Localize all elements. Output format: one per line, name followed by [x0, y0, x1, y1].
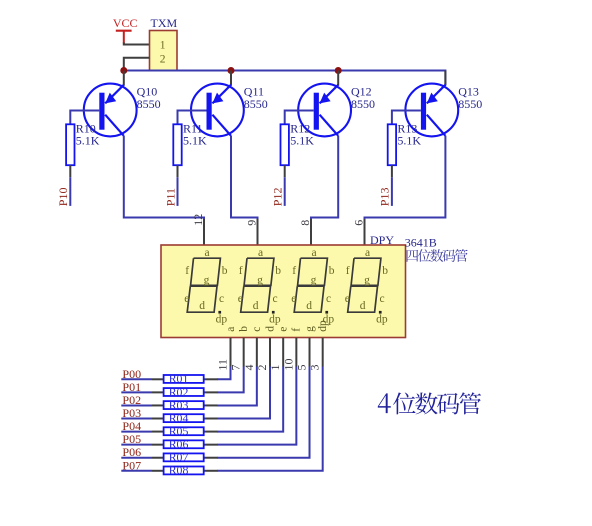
wire P07 to R08 — [121, 470, 152, 472]
transistor Q13 8550 PNP — [405, 84, 482, 137]
svg-text:g: g — [304, 326, 316, 332]
svg-text:8550: 8550 — [244, 97, 268, 111]
wire base Q12 to R12 — [285, 111, 314, 125]
resistor R12 5.1K — [281, 121, 315, 165]
power symbol VCC — [113, 16, 138, 43]
wire net stub P11 — [177, 165, 179, 177]
svg-text:P11: P11 — [163, 188, 177, 206]
wire VCC to TXM pin 1 — [124, 43, 150, 45]
svg-text:8550: 8550 — [458, 97, 482, 111]
svg-text:d: d — [199, 300, 205, 312]
svg-text:b: b — [382, 265, 388, 277]
svg-text:7: 7 — [229, 365, 243, 371]
connector TXM — [150, 16, 178, 70]
wire P01 to R02 — [121, 391, 152, 393]
svg-text:c: c — [219, 293, 224, 305]
svg-text:R05: R05 — [169, 424, 189, 438]
svg-text:5.1K: 5.1K — [76, 134, 100, 148]
svg-text:c: c — [273, 293, 278, 305]
resistor R11 5.1K — [173, 121, 207, 165]
svg-text:b: b — [329, 265, 335, 277]
svg-text:g: g — [311, 275, 317, 287]
resistor R13 5.1K — [388, 121, 422, 165]
title text: 4 wei shu ma guan — [378, 392, 481, 414]
wire emitter stub Q11 — [230, 71, 232, 86]
svg-text:5.1K: 5.1K — [397, 134, 421, 148]
pin stub DPY top pin 2 — [310, 219, 312, 245]
svg-text:P13: P13 — [378, 188, 392, 207]
svg-text:d: d — [264, 326, 276, 332]
svg-text:dp: dp — [317, 320, 329, 332]
svg-text:R03: R03 — [169, 398, 189, 412]
wire DPY pin 4 to R03 — [217, 367, 257, 406]
svg-text:a: a — [258, 247, 263, 259]
7-segment digit 3 — [291, 247, 335, 326]
svg-text:4: 4 — [242, 365, 256, 371]
transistor Q10 8550 PNP — [84, 84, 161, 137]
7-segment digit 2 — [238, 247, 282, 326]
svg-text:g: g — [257, 275, 263, 287]
svg-text:TXM: TXM — [151, 16, 178, 30]
svg-text:e: e — [345, 293, 350, 305]
wire P06 to R07 — [121, 457, 152, 459]
resistor R10 5.1K — [66, 121, 100, 165]
wire DPY pin 11 to R01 — [217, 367, 231, 380]
junction node col 0 — [120, 67, 127, 74]
svg-text:d: d — [306, 300, 312, 312]
svg-text:f: f — [185, 265, 189, 277]
svg-text:b: b — [222, 265, 228, 277]
svg-text:d: d — [253, 300, 259, 312]
wire collector Q10 to DPY — [124, 136, 204, 220]
svg-text:6: 6 — [352, 220, 366, 226]
resistor R05 — [164, 424, 204, 438]
svg-text:DPY: DPY — [370, 233, 394, 247]
junction node col 1 — [228, 67, 235, 74]
svg-text:b: b — [275, 265, 281, 277]
svg-text:dp: dp — [376, 314, 388, 326]
svg-text:5.1K: 5.1K — [183, 134, 207, 148]
svg-text:3: 3 — [308, 365, 322, 371]
svg-text:e: e — [184, 293, 189, 305]
wire collector Q12 to DPY — [311, 136, 338, 220]
wire collector Q11 to DPY — [231, 136, 258, 220]
svg-text:f: f — [239, 265, 243, 277]
svg-text:a: a — [205, 247, 210, 259]
svg-text:8550: 8550 — [137, 97, 161, 111]
pin stub DPY bottom pin 11 — [230, 338, 232, 367]
svg-text:R01: R01 — [169, 372, 189, 386]
pin stub DPY bottom pin 10 — [295, 338, 297, 367]
resistor R06 — [164, 437, 204, 451]
pin stub DPY top pin 1 — [257, 219, 259, 245]
wire DPY pin 1 to R05 — [217, 367, 283, 432]
svg-text:R06: R06 — [169, 437, 189, 451]
svg-text:a: a — [225, 327, 237, 332]
wire DPY pin 5 to R07 — [217, 367, 310, 458]
svg-text:11: 11 — [216, 359, 230, 371]
svg-text:dp: dp — [216, 314, 228, 326]
svg-text:c: c — [380, 293, 385, 305]
wire P05 to R06 — [121, 444, 152, 446]
transistor Q11 8550 PNP — [191, 84, 268, 137]
wire net stub P10 — [69, 165, 71, 177]
svg-text:g: g — [204, 275, 210, 287]
svg-text:1: 1 — [268, 365, 282, 371]
wire DPY pin 3 to R08 — [217, 367, 323, 471]
wire emitter stub Q12 — [337, 71, 339, 86]
pin stub DPY top pin 3 — [364, 219, 366, 245]
wire collector Q13 to DPY — [365, 136, 446, 220]
svg-text:VCC: VCC — [113, 16, 138, 30]
svg-text:e: e — [278, 327, 290, 332]
wire net stub P13 — [391, 165, 393, 177]
pin stub DPY bottom pin 7 — [243, 338, 245, 367]
wire base Q13 to R13 — [392, 111, 421, 125]
svg-text:e: e — [238, 293, 243, 305]
wire P03 to R04 — [121, 418, 152, 420]
svg-text:R02: R02 — [169, 385, 189, 399]
svg-text:2: 2 — [160, 53, 166, 65]
svg-text:3641B: 3641B — [405, 236, 437, 250]
svg-text:f: f — [292, 265, 296, 277]
pin stub DPY bottom pin 4 — [256, 338, 258, 367]
comment text (si wei shu ma guan) — [407, 249, 468, 262]
pin stub DPY bottom pin 5 — [309, 338, 311, 367]
wire VCC bus — [124, 71, 446, 86]
svg-text:9: 9 — [245, 220, 259, 226]
wire base Q11 to R11 — [178, 111, 207, 125]
svg-text:d: d — [360, 300, 366, 312]
svg-text:g: g — [364, 275, 370, 287]
pin stub DPY top pin 0 — [203, 219, 205, 245]
wire P04 to R05 — [121, 431, 152, 433]
svg-text:10: 10 — [281, 359, 295, 371]
wire P00 to R01 — [121, 378, 152, 380]
7-segment digit 4 — [345, 247, 389, 326]
wire DPY pin 10 to R06 — [217, 367, 296, 445]
svg-text:5.1K: 5.1K — [290, 134, 314, 148]
svg-text:b: b — [238, 326, 250, 332]
resistor R08 — [164, 463, 204, 477]
pin stub DPY bottom pin 3 — [322, 338, 324, 367]
svg-text:R04: R04 — [169, 411, 189, 425]
resistor R07 — [164, 450, 204, 464]
wire DPY pin 7 to R02 — [217, 367, 244, 393]
svg-text:8: 8 — [298, 220, 312, 226]
svg-text:2: 2 — [255, 365, 269, 371]
svg-text:1: 1 — [160, 40, 166, 52]
resistor R02 — [164, 385, 204, 399]
resistor R04 — [164, 411, 204, 425]
wire emitter stub Q10 — [123, 71, 125, 86]
svg-text:5: 5 — [295, 365, 309, 371]
wire DPY pin 2 to R04 — [217, 367, 270, 419]
7-segment digit 1 — [184, 247, 228, 326]
wire net stub P12 — [284, 165, 286, 177]
display DPY 3641B body — [161, 245, 406, 338]
transistor Q12 8550 PNP — [298, 84, 375, 137]
svg-text:a: a — [365, 247, 370, 259]
junction node col 2 — [335, 67, 342, 74]
svg-text:P12: P12 — [271, 188, 285, 207]
svg-text:12: 12 — [191, 214, 205, 226]
svg-text:dp: dp — [269, 314, 281, 326]
svg-text:a: a — [312, 247, 317, 259]
pin stub DPY bottom pin 2 — [269, 338, 271, 367]
wire TXM pin 2 to bus — [124, 58, 150, 71]
pin stub DPY bottom pin 1 — [282, 338, 284, 367]
wire emitter stub Q13 — [444, 71, 446, 86]
resistor R03 — [164, 398, 204, 412]
svg-text:c: c — [251, 327, 263, 332]
svg-text:R07: R07 — [169, 450, 189, 464]
svg-text:R08: R08 — [169, 463, 189, 477]
svg-text:P10: P10 — [56, 188, 70, 207]
svg-text:f: f — [291, 328, 303, 332]
svg-text:8550: 8550 — [351, 97, 375, 111]
resistor R01 — [164, 372, 204, 386]
wire base Q10 to R10 — [70, 111, 99, 125]
svg-text:c: c — [326, 293, 331, 305]
svg-text:f: f — [346, 265, 350, 277]
wire P02 to R03 — [121, 404, 152, 406]
svg-text:e: e — [291, 293, 296, 305]
